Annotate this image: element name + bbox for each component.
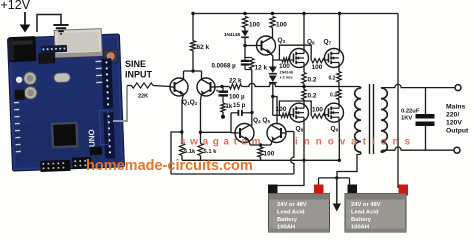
wire feedback line to output node <box>242 83 358 86</box>
svg-text:0.2: 0.2 <box>329 76 336 82</box>
wire Q5 base down to bus2 <box>291 132 294 175</box>
wire Q8 source to bus1 <box>303 122 305 161</box>
wire Q3 collector down <box>271 54 273 61</box>
wire Q2 base stub <box>215 86 222 89</box>
svg-text:Q1Q2: Q1Q2 <box>182 99 198 106</box>
svg-text:100: 100 <box>276 22 287 29</box>
svg-text:100 µ: 100 µ <box>229 94 245 101</box>
wire Q4 emitter down <box>249 141 250 146</box>
arduino uno board <box>7 28 124 173</box>
node diode chain bottom <box>271 95 274 98</box>
wire 100b to Q3 emitter <box>272 28 274 39</box>
transformer T1 secondary <box>381 88 387 152</box>
node emitter join <box>259 143 262 146</box>
svg-text:22 k: 22 k <box>229 78 242 85</box>
mosfet Q6 <box>290 49 309 68</box>
wire 22K to Q1 base <box>153 86 170 87</box>
resistor 5.1k right <box>198 144 203 156</box>
wire output top <box>384 84 455 87</box>
transformer T1 core <box>369 84 371 154</box>
wire Q5 emitter down <box>271 141 272 146</box>
capacitor 15p <box>231 112 238 114</box>
wire arduino pwm jumper (gray) <box>113 86 127 121</box>
svg-text:Q7: Q7 <box>324 39 332 46</box>
wire 62k top lead <box>192 14 194 41</box>
svg-text:0.2: 0.2 <box>308 93 317 100</box>
resistor 62k <box>190 41 195 51</box>
svg-text:+: + <box>216 89 219 95</box>
svg-text:+12V: +12V <box>1 0 31 12</box>
svg-text:swagatam: swagatam <box>180 137 265 148</box>
wire diode chain top <box>272 60 274 67</box>
wire feedback tap left <box>171 132 182 174</box>
wire 5.1k right to bus <box>200 156 202 161</box>
transistor Q3 (pnp) <box>257 36 276 55</box>
svg-text:0.22uF: 0.22uF <box>401 109 420 115</box>
svg-text:x 2 nos: x 2 nos <box>280 76 293 80</box>
wire Q8src bus1 to battery1 neg <box>273 160 305 189</box>
mosfet Q8 <box>290 103 309 122</box>
resistor 100 emitters <box>258 147 263 157</box>
capacitor 0.22uF 1KV <box>425 88 427 114</box>
node rail-Q6 drain junction <box>302 12 305 15</box>
wire 15p left to Q2 emitter tap <box>201 113 232 133</box>
wire 100 to ground bus <box>260 157 262 160</box>
wire rail to Q6 drain <box>303 14 305 51</box>
resistor 0.2 Q6 source <box>302 73 306 84</box>
node rail-62k junction <box>191 12 194 15</box>
wire to Q5 collector <box>273 97 277 125</box>
wire Q4 base stub <box>231 132 235 134</box>
node rail-100b junction <box>271 12 274 15</box>
resistor 0.2 Q9 drain <box>337 90 341 100</box>
resistor 100 gate Q8 <box>281 113 290 117</box>
svg-text:100: 100 <box>312 107 323 114</box>
wire ground bus 2 <box>171 173 294 175</box>
wire secondary bottom out <box>381 150 384 152</box>
wire output bottom <box>384 147 454 150</box>
wire emitter join <box>250 144 271 146</box>
svg-text:100: 100 <box>264 151 275 158</box>
svg-text:100: 100 <box>279 63 290 70</box>
wire 62k bottom lead <box>192 51 194 71</box>
resistor 0.2 Q8 drain <box>302 90 306 100</box>
battery BAT1 24V/48V <box>268 185 278 196</box>
wire Q1 collector up <box>183 71 185 80</box>
wire 12k down to Q4 collector <box>251 70 253 127</box>
svg-text:120V: 120V <box>446 120 462 127</box>
wire +12V arrow <box>20 12 31 33</box>
svg-text:Q3: Q3 <box>278 37 286 44</box>
capacitor 0.0068u + resistor 12k pair <box>245 57 252 59</box>
wire Q3 coll to gate res <box>277 59 282 61</box>
wire center tap arrow <box>336 178 338 204</box>
node 15p-12k junction <box>250 111 253 114</box>
node bus1-Q9source <box>338 159 341 162</box>
wire diode node to gate res <box>273 114 281 116</box>
resistor 100 rail-b <box>270 17 275 28</box>
node Q3 base junction <box>243 44 246 47</box>
diode D3 1N4148 <box>269 76 277 82</box>
svg-text:UNO: UNO <box>87 129 97 147</box>
svg-text:220/: 220/ <box>446 112 459 119</box>
svg-text:100AH: 100AH <box>277 225 295 231</box>
diode D1 1N4148 <box>241 31 249 37</box>
resistor 100 gate Q9 <box>312 114 325 118</box>
node bus1-Q8source <box>302 159 305 162</box>
wire Q5 base right <box>287 131 294 133</box>
wire Q2base to 22k <box>222 86 230 88</box>
svg-text:100: 100 <box>249 22 260 29</box>
svg-text:Q6: Q6 <box>307 39 315 46</box>
svg-text:Lead Acid: Lead Acid <box>277 210 305 216</box>
svg-text:100: 100 <box>276 106 287 113</box>
wire 100a to D1 <box>244 28 246 31</box>
resistor 5.1k left <box>179 144 184 156</box>
svg-text:0.2: 0.2 <box>308 77 317 84</box>
transistor Q2 <box>197 78 215 96</box>
svg-text:1k: 1k <box>226 104 233 110</box>
battery BAT2 24V/48V <box>348 185 358 196</box>
wire node A to Q8 drain res <box>303 87 305 90</box>
svg-text:1KV: 1KV <box>401 116 412 122</box>
svg-text:Output: Output <box>446 128 469 135</box>
wire top +V rail <box>193 13 398 15</box>
wire ground link <box>37 15 61 33</box>
wire Q9 source to bus1 <box>338 121 340 160</box>
wire ground bus 1 <box>182 159 339 161</box>
node output A junction <box>302 85 305 88</box>
wire Q3 base stub <box>245 45 257 47</box>
wire battery1 plus up <box>318 178 320 188</box>
mosfet Q7 <box>325 49 344 68</box>
wire collector bridge <box>184 70 202 72</box>
node Q1 emitter tap <box>180 130 183 133</box>
wire gate loop Q6-Q7 <box>279 45 311 61</box>
wire battery2 neg up <box>349 178 351 188</box>
svg-text:Q4 Q5: Q4 Q5 <box>253 117 270 125</box>
node rail-100a junction <box>243 12 246 15</box>
resistor 100 gate Q6 <box>282 58 290 62</box>
resistor 22k feedback <box>230 84 242 89</box>
node rail-Q7 drain junction <box>338 12 341 15</box>
wire battery mid link <box>319 177 350 179</box>
wire feedback wire into primary top <box>357 87 361 89</box>
svg-text:15 p: 15 p <box>233 102 246 109</box>
node Q2 emitter tap <box>199 131 202 134</box>
wire 0.2Q7 to node B <box>338 82 340 90</box>
mosfet Q9 <box>325 103 344 122</box>
node battery mid <box>335 176 338 179</box>
node Q2 base junction <box>220 85 223 88</box>
wire diode chain bottom <box>272 84 274 97</box>
wire diode node to Q8 gate res <box>272 97 274 116</box>
wire sine input to 22K <box>127 85 132 87</box>
svg-text:100AH: 100AH <box>351 225 369 231</box>
svg-text:innovations: innovations <box>295 137 416 148</box>
wire 0.2 to Q9 drain <box>338 100 340 105</box>
svg-text:Mains: Mains <box>446 104 465 111</box>
wire Q3 collector to Q6 gate <box>273 59 277 61</box>
svg-text:SINE: SINE <box>125 59 146 69</box>
transistor Q5 <box>267 124 286 143</box>
wire 0.2 to Q8 drain <box>303 100 305 106</box>
svg-text:Q8: Q8 <box>296 126 304 133</box>
terminal output bottom <box>454 147 460 153</box>
svg-text:0.0068 µ: 0.0068 µ <box>212 63 237 70</box>
svg-text:24V or 48V: 24V or 48V <box>277 202 307 208</box>
ground symbol <box>53 25 68 34</box>
wire 1k bottom <box>222 112 224 116</box>
transistor Q1 <box>170 78 188 96</box>
wire gate loop Q8-Q9 <box>279 101 311 116</box>
svg-text:0.2: 0.2 <box>330 93 337 99</box>
svg-text:Lead Acid: Lead Acid <box>351 210 379 216</box>
resistor 22K input <box>132 83 154 88</box>
svg-text:INPUT: INPUT <box>125 70 153 80</box>
svg-text:Q9: Q9 <box>331 126 339 133</box>
svg-text:5.1k: 5.1k <box>184 149 196 155</box>
svg-text:100: 100 <box>312 64 323 71</box>
resistor 100 gate Q7 <box>312 59 325 63</box>
svg-text:24V or 48V: 24V or 48V <box>351 202 381 208</box>
svg-text:1N4148: 1N4148 <box>224 32 241 37</box>
wire secondary top out <box>381 87 384 89</box>
wire Q2 emitter down <box>201 95 202 144</box>
svg-text:5.1 k: 5.1 k <box>204 149 218 155</box>
transistor Q4 <box>235 124 254 143</box>
node 1k end dot <box>221 115 225 119</box>
capacitor 100u electrolytic <box>222 87 224 91</box>
wire Q1 emitter down <box>182 95 184 144</box>
wire rail to Q7 drain <box>339 14 341 51</box>
svg-text:homemade-circuits.com: homemade-circuits.com <box>86 158 253 174</box>
resistor 100 rail-a <box>242 17 247 28</box>
diode D2 1N4148 <box>269 67 277 73</box>
wire D1 to base node <box>244 38 246 58</box>
wire 0.2 to node A <box>303 84 305 87</box>
transformer T1 primary <box>355 88 361 152</box>
svg-text:Battery: Battery <box>277 217 298 223</box>
svg-text:22K: 22K <box>138 94 148 100</box>
svg-text:62 k: 62 k <box>197 44 210 51</box>
wire Q6 source down <box>303 67 305 73</box>
svg-text:12 k: 12 k <box>255 65 268 72</box>
wire Q7 source down <box>338 67 340 72</box>
wire Q2 collector up <box>201 71 203 80</box>
svg-text:1N4148: 1N4148 <box>280 71 293 75</box>
terminal output top <box>455 85 461 91</box>
resistor 1k <box>221 103 225 112</box>
wire rail down to battery2 plus <box>397 14 399 189</box>
wire 5.1k left to bus <box>181 156 183 161</box>
wire primary bottom to battery mid <box>337 152 361 178</box>
resistor 0.2 Q7 source <box>337 72 341 83</box>
svg-text:Battery: Battery <box>351 217 372 223</box>
wire to 100 resistor <box>260 145 262 147</box>
node collector bridge center <box>191 69 194 72</box>
